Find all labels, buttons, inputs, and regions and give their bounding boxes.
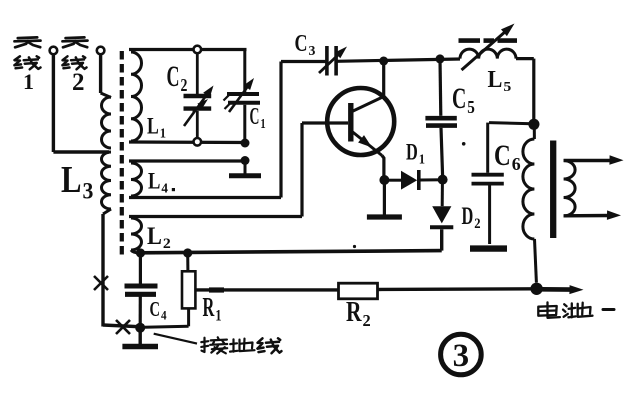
svg-text:L: L (147, 223, 162, 250)
svg-text:6: 6 (512, 154, 521, 174)
svg-text:L: L (488, 67, 503, 93)
svg-text:C: C (452, 82, 466, 115)
svg-text:1: 1 (215, 308, 221, 325)
svg-text:2: 2 (181, 75, 188, 95)
svg-text:R: R (346, 297, 362, 328)
svg-text:4: 4 (161, 181, 168, 196)
svg-text:D: D (406, 140, 418, 165)
svg-text:2: 2 (72, 69, 85, 96)
svg-text:C: C (150, 297, 161, 321)
svg-text:3: 3 (83, 179, 94, 204)
svg-text:1: 1 (160, 126, 166, 141)
svg-text:R: R (203, 292, 215, 322)
svg-text:2: 2 (474, 216, 480, 232)
svg-text:5: 5 (503, 80, 511, 95)
svg-text:C: C (167, 60, 180, 93)
svg-text:4: 4 (161, 308, 167, 323)
svg-text:1: 1 (419, 152, 425, 167)
svg-text:2: 2 (363, 311, 371, 330)
svg-text:C: C (295, 31, 308, 57)
svg-text:2: 2 (163, 236, 171, 252)
svg-text:L: L (148, 169, 160, 194)
svg-text:C: C (250, 104, 260, 130)
svg-text:3: 3 (309, 44, 316, 59)
svg-text:1: 1 (23, 69, 34, 94)
svg-text:L: L (61, 159, 82, 201)
svg-text:3: 3 (453, 338, 470, 374)
svg-text:C: C (494, 139, 511, 172)
svg-text:5: 5 (467, 97, 475, 117)
svg-text:L: L (147, 114, 159, 139)
svg-text:D: D (462, 203, 474, 230)
svg-text:1: 1 (260, 117, 265, 132)
